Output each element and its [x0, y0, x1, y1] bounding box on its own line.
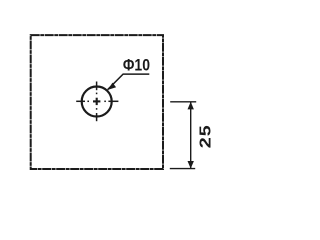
svg-text:25: 25 [196, 124, 214, 148]
svg-text:Φ10: Φ10 [123, 57, 150, 75]
